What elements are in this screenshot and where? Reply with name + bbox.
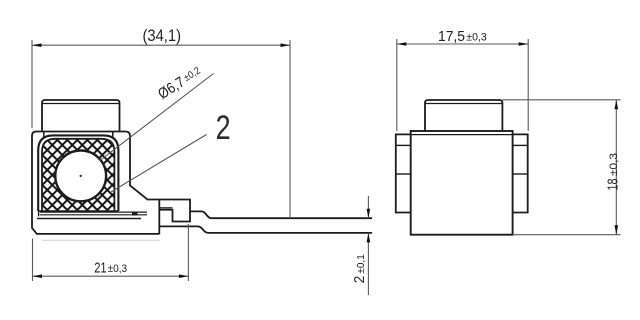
svg-text:±0,3: ±0,3 [466, 32, 487, 44]
svg-text:±0,3: ±0,3 [108, 263, 128, 275]
svg-text:2: 2 [351, 276, 368, 284]
svg-text:21: 21 [94, 259, 106, 276]
svg-text:17,5: 17,5 [438, 28, 465, 45]
svg-text:±0,3: ±0,3 [608, 153, 620, 176]
svg-text:2: 2 [216, 109, 231, 147]
svg-text:±0,1: ±0,1 [355, 254, 367, 274]
svg-text:(34,1): (34,1) [143, 27, 182, 45]
svg-text:18: 18 [604, 179, 621, 191]
